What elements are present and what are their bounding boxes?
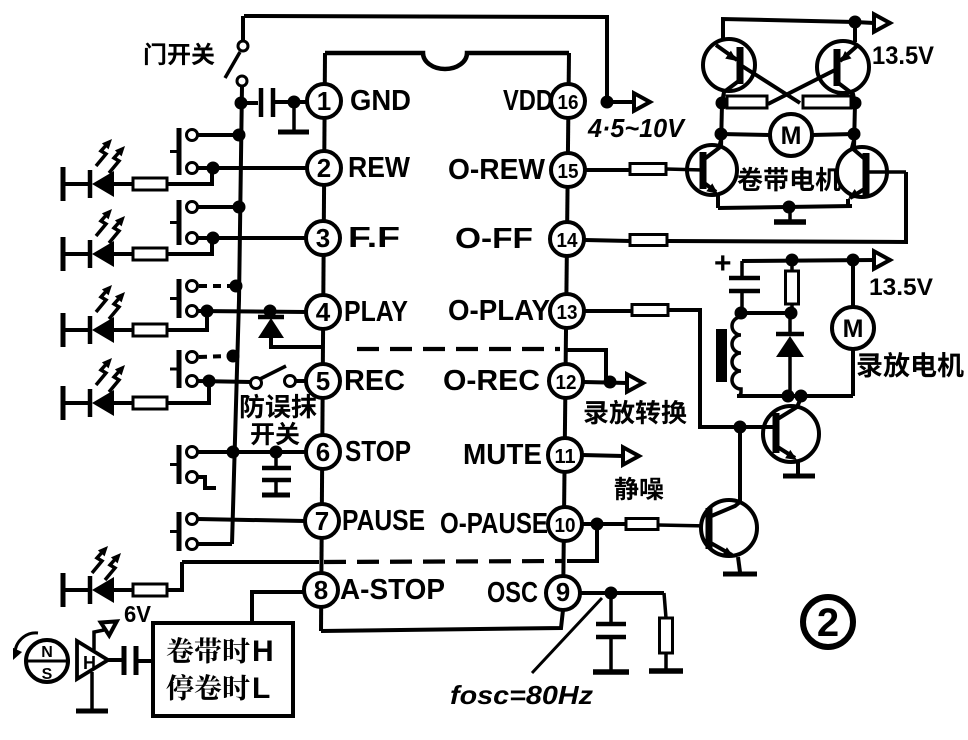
label jingzao xyxy=(615,477,664,501)
box tape logic xyxy=(153,623,293,716)
wire B4 upper dashed xyxy=(199,356,229,357)
wire pin10 down xyxy=(567,524,597,561)
IC U1 outline xyxy=(321,53,569,631)
pin 1 GND xyxy=(307,84,341,118)
capacitor C1 xyxy=(241,88,308,117)
node hb right mid xyxy=(848,128,861,141)
svg-text:GND: GND xyxy=(350,85,411,117)
wire B3 upper dashed xyxy=(199,284,232,288)
wire motor2 bottom xyxy=(737,394,853,398)
pin 9 OSC xyxy=(546,576,580,610)
node pin16 out xyxy=(601,96,614,109)
svg-text:O-REW: O-REW xyxy=(448,154,546,186)
transistor Q4 xyxy=(837,140,887,208)
LED D-REW xyxy=(63,167,212,201)
node hbridge 13.5V xyxy=(849,16,862,29)
pin 16 VDD xyxy=(551,84,585,118)
arrow MUTE out xyxy=(623,447,639,465)
node L1 top xyxy=(735,307,748,320)
node Q5 collector xyxy=(795,390,808,403)
svg-text:16: 16 xyxy=(558,92,579,114)
label lufang motor xyxy=(857,352,963,378)
svg-text:O-REC: O-REC xyxy=(443,365,540,397)
svg-text:MUTE: MUTE xyxy=(463,439,542,471)
op-amp U2 xyxy=(77,641,108,679)
pin 15 O-REW xyxy=(551,153,585,187)
ground Q6 xyxy=(723,572,757,577)
LED D-ASTOP rays xyxy=(92,546,121,580)
node hb left mid xyxy=(715,128,728,141)
pushbutton S-STOP xyxy=(170,445,198,484)
capacitor C4 xyxy=(596,593,626,671)
transistor Q3 xyxy=(687,140,737,208)
svg-text:PLAY: PLAY xyxy=(344,296,408,328)
pushbutton S-PAUSE xyxy=(170,512,198,551)
wire pin16 arrow xyxy=(607,100,634,104)
wire pin9 xyxy=(581,591,664,595)
svg-text:OSC: OSC xyxy=(487,577,538,609)
svg-text:5: 5 xyxy=(316,366,330,396)
pin 3 F.F xyxy=(306,221,340,255)
capacitor C5 xyxy=(108,646,153,675)
node rail R3 xyxy=(786,254,799,267)
node B5 cap xyxy=(270,446,283,459)
LED D-REW rays xyxy=(96,139,125,173)
pushbutton S-PLAY xyxy=(170,279,198,318)
node B3 led xyxy=(201,305,214,318)
pin 5 REC xyxy=(306,364,340,398)
door switch (men kai guan) xyxy=(225,16,248,86)
pushbutton S-REC xyxy=(170,350,198,388)
wire R10 to Q6 xyxy=(658,525,709,526)
node B1 led xyxy=(207,162,220,175)
wire left bus vertical xyxy=(232,86,242,544)
wire B3 lower to pin4 xyxy=(198,311,306,312)
svg-text:10: 10 xyxy=(555,515,576,537)
svg-text:2: 2 xyxy=(317,153,331,183)
wire B2 lower to pin3 xyxy=(198,236,306,240)
pin 10 O-PAUSE xyxy=(548,507,582,541)
wire pin8 to box xyxy=(252,592,304,622)
wire B1 lower to pin2 xyxy=(198,166,307,170)
node pin12 out xyxy=(604,376,617,389)
label box line2 xyxy=(166,674,249,701)
capacitor C3 xyxy=(729,261,760,313)
svg-text:13: 13 xyxy=(557,302,578,324)
transistor Q6 xyxy=(701,500,757,572)
wire pin12 arrow xyxy=(584,382,627,383)
wire Q4 base xyxy=(866,170,906,174)
wire B6 lower to bus xyxy=(198,542,232,546)
arrow 13.5V top xyxy=(874,14,890,32)
LED D-FF xyxy=(63,237,212,271)
wire B4 lower xyxy=(198,381,251,382)
wire hb left rail xyxy=(721,103,722,148)
wire hb right rail xyxy=(854,103,855,148)
pin 2 REW xyxy=(307,151,341,185)
LED D-REC xyxy=(63,381,209,420)
node B3 bus xyxy=(230,280,243,293)
transistor Q2 xyxy=(768,22,869,104)
figure number 2 xyxy=(803,597,853,647)
transistor Q5 xyxy=(740,398,819,474)
resistor R-hb1 xyxy=(727,96,767,108)
wire pin15 xyxy=(585,168,630,172)
pin 7 PAUSE xyxy=(305,504,339,538)
svg-text:REW: REW xyxy=(348,152,411,184)
node B2 led xyxy=(207,232,220,245)
svg-text:13.5V: 13.5V xyxy=(869,274,933,301)
transistor Q1 xyxy=(703,39,800,103)
svg-text:REC: REC xyxy=(344,365,405,397)
switch S-recprotect xyxy=(251,366,307,389)
wire top supply rail xyxy=(244,16,607,102)
wire pin13 to Q5Q6 xyxy=(668,310,740,427)
node hb bottom xyxy=(783,201,796,214)
ground hbridge xyxy=(774,208,806,222)
arrow 6V xyxy=(94,615,121,650)
wire B2 upper xyxy=(198,205,236,209)
svg-text:1: 1 xyxy=(317,86,331,116)
pin 12 O-REC xyxy=(549,364,583,398)
label lufang zhuanhuan xyxy=(584,400,686,425)
pin 11 MUTE xyxy=(548,438,582,472)
svg-text:M: M xyxy=(781,122,802,150)
dashed line upper xyxy=(357,347,560,351)
pin 14 O-FF xyxy=(550,222,584,256)
svg-text:fosc=80Hz: fosc=80Hz xyxy=(450,680,593,710)
wire B6 upper to pin7 xyxy=(198,519,305,521)
svg-text:3: 3 xyxy=(316,223,330,253)
node D2 bottom xyxy=(782,390,795,403)
wire astop-led to pin8 xyxy=(182,560,319,564)
svg-text:6: 6 xyxy=(316,437,330,467)
wire B1 upper xyxy=(198,133,236,137)
node C1-gnd xyxy=(288,96,301,109)
svg-text:F.F: F.F xyxy=(348,222,400,254)
svg-text:13.5V: 13.5V xyxy=(872,42,934,70)
svg-text:12: 12 xyxy=(556,372,577,394)
wire pin11 arrow xyxy=(582,455,623,456)
svg-text:14: 14 xyxy=(557,230,579,252)
svg-text:N: N xyxy=(41,644,53,661)
node hb left top xyxy=(716,97,729,110)
arrow 13.5V mid xyxy=(874,251,890,269)
node hb right top xyxy=(849,97,862,110)
svg-text:8: 8 xyxy=(314,575,328,605)
svg-text:A-STOP: A-STOP xyxy=(340,574,445,606)
pin 13 O-PLAY xyxy=(550,294,584,328)
svg-text:6V: 6V xyxy=(124,601,152,627)
node B4 bus xyxy=(227,350,240,363)
node D2 top xyxy=(785,307,798,320)
arrow O-REC out xyxy=(627,374,643,392)
LED D-ASTOP xyxy=(63,562,182,607)
svg-text:2: 2 xyxy=(817,601,839,645)
dashed line lower xyxy=(324,561,564,562)
motor M1 xyxy=(721,114,854,156)
svg-text:H: H xyxy=(83,653,96,673)
pushbutton S-REW xyxy=(170,128,198,175)
resistor R15 xyxy=(630,164,666,175)
wire B5 lower hook xyxy=(198,477,216,488)
wire B5 upper to pin6 xyxy=(198,450,306,454)
svg-text:11: 11 xyxy=(555,446,576,468)
wire cap-res link xyxy=(741,311,792,315)
LED D-PLAY rays xyxy=(96,285,125,319)
resistor R10 xyxy=(626,519,658,530)
wire fosc pointer xyxy=(532,598,602,673)
pushbutton S-FF xyxy=(170,200,198,245)
svg-text:L: L xyxy=(252,672,270,705)
svg-text:S: S xyxy=(42,666,53,683)
node D1 xyxy=(264,305,277,318)
ground C4 xyxy=(593,669,629,675)
wire pin10 xyxy=(583,522,626,526)
pin 8 A-STOP xyxy=(304,573,338,607)
node B4 led xyxy=(203,375,216,388)
node B5 bus xyxy=(227,446,240,459)
ground at C1 xyxy=(278,102,309,132)
wire pin14 to Q4 xyxy=(667,172,906,242)
core of L1 xyxy=(716,329,727,382)
resistor R3 xyxy=(786,260,799,313)
label box line1 xyxy=(167,637,250,664)
diode D2 xyxy=(776,313,804,396)
pin 4 PLAY xyxy=(306,295,340,329)
ground U2 xyxy=(76,672,108,711)
svg-text:M: M xyxy=(843,315,864,343)
label fangwumo xyxy=(241,394,317,419)
resistor R13 xyxy=(632,305,668,316)
LED D-PLAY xyxy=(63,311,207,347)
ground Q5 xyxy=(783,474,815,479)
sensor NS xyxy=(26,640,70,683)
wire hbridge top rail xyxy=(723,19,874,40)
arrow VDD out xyxy=(634,93,650,111)
node rail M2 xyxy=(847,254,860,267)
label juandai motor xyxy=(738,167,841,192)
svg-text:PAUSE: PAUSE xyxy=(342,505,425,537)
svg-text:O-FF: O-FF xyxy=(455,223,533,255)
svg-text:4: 4 xyxy=(316,297,331,327)
pin 6 STOP xyxy=(306,435,340,469)
label kaiguan xyxy=(251,422,299,446)
LED D-FF rays xyxy=(96,209,125,243)
svg-text:O-PLAY: O-PLAY xyxy=(448,295,550,327)
svg-text:VDD: VDD xyxy=(503,85,553,117)
resistor R-hb2 xyxy=(803,96,851,108)
ground at C2 xyxy=(262,493,290,498)
LED D-REC rays xyxy=(96,358,125,392)
node pin9 xyxy=(605,587,618,600)
svg-text:9: 9 xyxy=(556,577,570,607)
ground R9 xyxy=(649,668,683,674)
resistor R14 xyxy=(630,235,667,246)
svg-text:+: + xyxy=(714,247,732,280)
svg-text:7: 7 xyxy=(315,506,329,536)
svg-text:STOP: STOP xyxy=(345,436,411,468)
node Q5 base xyxy=(734,421,747,434)
inductor L1 xyxy=(732,317,741,396)
node pin10 xyxy=(591,518,604,531)
svg-text:H: H xyxy=(252,635,274,668)
wire pin12 L xyxy=(567,350,606,382)
label door switch xyxy=(145,42,215,65)
diode D1 xyxy=(258,311,323,347)
svg-text:4·5~10V: 4·5~10V xyxy=(587,113,687,143)
wire pin14 xyxy=(585,240,630,241)
wire Q5Q6 link xyxy=(738,427,742,502)
capacitor C2 xyxy=(262,452,291,493)
wire Q3 base xyxy=(666,169,703,170)
wire hb bottom rail xyxy=(718,206,852,208)
node B2 bus xyxy=(233,201,246,214)
svg-text:O-PAUSE: O-PAUSE xyxy=(440,508,548,540)
node bus-C1 xyxy=(235,97,248,110)
wire pin13 xyxy=(584,309,632,313)
svg-text:15: 15 xyxy=(558,161,579,183)
wire motor2 rail xyxy=(742,260,874,261)
node B1 bus xyxy=(233,129,246,142)
motor M2 xyxy=(832,260,874,396)
resistor R9 xyxy=(660,593,673,670)
arrow NS rotate xyxy=(13,633,38,660)
